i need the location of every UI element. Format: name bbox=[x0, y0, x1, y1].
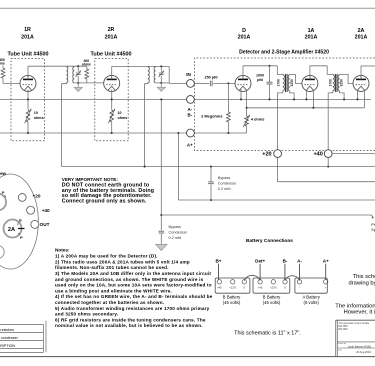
svg-text:ohms: ohms bbox=[0, 61, 5, 65]
svg-text:Condenser: Condenser bbox=[218, 182, 237, 186]
svg-text:A+: A+ bbox=[323, 259, 329, 264]
svg-text:1A: 1A bbox=[308, 28, 315, 34]
svg-text:resistors: resistors bbox=[0, 328, 14, 332]
svg-text:condenser: condenser bbox=[1, 336, 19, 340]
svg-text:ohms: ohms bbox=[34, 116, 44, 120]
svg-text:Phones: Phones bbox=[371, 223, 375, 227]
svg-text:2 Megohms: 2 Megohms bbox=[201, 114, 222, 119]
svg-text:2A: 2A bbox=[358, 28, 365, 34]
svg-text:B-: B- bbox=[187, 113, 192, 118]
svg-text:1R: 1R bbox=[24, 27, 31, 33]
svg-text:use a binding post and elimina: use a binding post and eliminate the WHI… bbox=[55, 288, 172, 293]
svg-text:connected together at the batt: connected together at the batteries as s… bbox=[55, 300, 164, 305]
svg-text:A-: A- bbox=[297, 259, 302, 264]
svg-text:+45: +45 bbox=[258, 286, 263, 290]
svg-text:1) A 200A may be used for the: 1) A 200A may be used for the Detector (… bbox=[55, 254, 158, 259]
svg-text:2R: 2R bbox=[108, 27, 115, 33]
svg-text:Tube Unit #4500: Tube Unit #4500 bbox=[8, 52, 49, 58]
svg-text:This schematic was created: This schematic was created bbox=[353, 274, 375, 280]
svg-text:However, it is believed: However, it is believed bbox=[344, 309, 375, 315]
svg-text:201A: 201A bbox=[355, 34, 368, 40]
svg-text:+22½: +22½ bbox=[270, 286, 278, 290]
svg-text:4 ohms: 4 ohms bbox=[251, 117, 265, 122]
svg-text:RM 4550: RM 4550 bbox=[338, 326, 348, 328]
svg-text:(45 volts): (45 volts) bbox=[223, 300, 241, 305]
svg-text:4) If the set has no GREEN wir: 4) If the set has no GREEN wire, the A- … bbox=[55, 294, 213, 299]
svg-text:10: 10 bbox=[34, 111, 38, 115]
svg-text:Connect ground only as shown.: Connect ground only as shown. bbox=[62, 199, 147, 205]
svg-text:-: - bbox=[299, 286, 300, 290]
svg-text:nominal value is not available: nominal value is not available, but is b… bbox=[55, 323, 203, 328]
svg-text:IN: IN bbox=[186, 72, 191, 77]
svg-text:Battery Connections: Battery Connections bbox=[246, 238, 293, 244]
svg-text:+20: +20 bbox=[33, 194, 41, 199]
svg-text:+22½: +22½ bbox=[229, 286, 237, 290]
svg-text:A Battery: A Battery bbox=[302, 294, 320, 299]
svg-text:pfd: pfd bbox=[257, 78, 263, 82]
svg-text:3250: 3250 bbox=[290, 79, 294, 87]
svg-text:201A: 201A bbox=[238, 34, 251, 40]
svg-text:Notes:: Notes: bbox=[55, 248, 70, 253]
svg-text:10: 10 bbox=[118, 111, 122, 115]
svg-text:Leigh Bassett W1BL: Leigh Bassett W1BL bbox=[348, 344, 372, 348]
svg-text:RM 4520: RM 4520 bbox=[338, 329, 348, 331]
svg-text:Det+: Det+ bbox=[255, 259, 265, 264]
svg-text:A+: A+ bbox=[187, 142, 193, 147]
svg-text:Top view: Top view bbox=[0, 171, 7, 176]
svg-text:B+: B+ bbox=[215, 259, 221, 264]
svg-text:This schematic is 11" x 17".: This schematic is 11" x 17". bbox=[234, 331, 301, 337]
svg-text:(6 volts): (6 volts) bbox=[304, 300, 320, 305]
svg-text:OUT: OUT bbox=[40, 222, 50, 227]
svg-text:0.2 mfd: 0.2 mfd bbox=[169, 236, 182, 240]
svg-text:B Battery: B Battery bbox=[223, 294, 242, 299]
svg-text:Bypass: Bypass bbox=[169, 225, 182, 229]
svg-text:and ground connections, as sho: and ground connections, as shown. The WH… bbox=[55, 277, 204, 282]
svg-text:Date: Date bbox=[338, 348, 342, 351]
svg-text:drawing by the author. It: drawing by the author. It bbox=[349, 281, 375, 287]
svg-text:This schematic covers models: This schematic covers models bbox=[338, 322, 370, 325]
svg-text:Condenser: Condenser bbox=[169, 231, 188, 235]
svg-text:G: G bbox=[19, 218, 22, 222]
svg-text:SCRIPTION: SCRIPTION bbox=[0, 344, 15, 348]
svg-text:3) The Models 10A and 10B diff: 3) The Models 10A and 10B differ only in… bbox=[55, 271, 211, 276]
svg-text:201A: 201A bbox=[305, 34, 318, 40]
svg-text:Drawn by: Drawn by bbox=[338, 342, 346, 345]
svg-text:3250: 3250 bbox=[340, 79, 344, 87]
svg-text:5) Audio transformer winding r: 5) Audio transformer winding resistances… bbox=[55, 306, 210, 311]
svg-text:201A: 201A bbox=[21, 34, 34, 40]
svg-text:Speaker: Speaker bbox=[371, 228, 375, 232]
svg-text:used only on the 10A, but some: used only on the 10A, but some 10A sets … bbox=[55, 283, 212, 288]
svg-text:2) This radio uses 200A & 201A: 2) This radio uses 200A & 201A tubes wit… bbox=[55, 259, 190, 264]
svg-text:201A: 201A bbox=[105, 34, 118, 40]
svg-text:B-: B- bbox=[283, 259, 288, 264]
svg-text:VERY IMPORTANT NOTE:: VERY IMPORTANT NOTE: bbox=[62, 177, 119, 182]
svg-text:A-: A- bbox=[187, 107, 192, 112]
svg-text:Tube Unit #4500: Tube Unit #4500 bbox=[91, 52, 132, 58]
svg-text:6) RF grid resistors are insid: 6) RF grid resistors are inside the tuni… bbox=[55, 317, 206, 322]
svg-text:250 pfd: 250 pfd bbox=[205, 75, 219, 79]
svg-text:ohms: ohms bbox=[118, 116, 128, 120]
svg-text:filaments. Non-suffix 201 tub: filaments. Non-suffix 201 tubes cannot b… bbox=[55, 265, 169, 270]
svg-text:+40: +40 bbox=[42, 208, 50, 213]
svg-text:+40: +40 bbox=[313, 151, 322, 157]
svg-text:ohms: ohms bbox=[82, 62, 91, 66]
svg-text:+20: +20 bbox=[262, 151, 271, 157]
svg-text:0.2 mfd: 0.2 mfd bbox=[218, 187, 231, 191]
svg-text:(45 volts): (45 volts) bbox=[263, 300, 281, 305]
svg-text:and 3250 ohms secondary.: and 3250 ohms secondary. bbox=[55, 312, 118, 317]
svg-text:2A: 2A bbox=[8, 227, 15, 233]
svg-text:D: D bbox=[242, 28, 246, 34]
svg-text:20 Aug 2004: 20 Aug 2004 bbox=[356, 350, 371, 354]
svg-text:B Battery: B Battery bbox=[263, 294, 282, 299]
svg-text:1700: 1700 bbox=[329, 79, 333, 87]
svg-text:Detector and 2-Stage Amplifier: Detector and 2-Stage Amplifier #4520 bbox=[239, 50, 329, 56]
svg-text:+45: +45 bbox=[217, 286, 222, 290]
svg-text:1700: 1700 bbox=[276, 79, 280, 87]
svg-text:Bypass: Bypass bbox=[218, 176, 231, 180]
